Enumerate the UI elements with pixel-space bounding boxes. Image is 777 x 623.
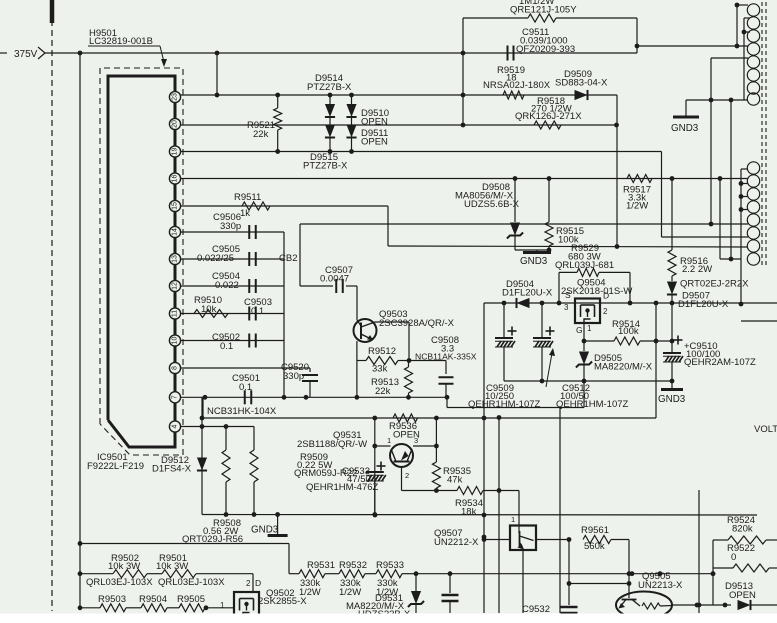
wire C9507 to base <box>346 286 357 320</box>
wire control bus <box>203 397 656 420</box>
svg-text:0.0047: 0.0047 <box>320 274 349 285</box>
wire aux out <box>741 320 777 322</box>
svg-text:4: 4 <box>172 424 179 428</box>
pin 7 of IC9501 <box>169 392 180 403</box>
diode D9511 (OPEN) <box>346 125 356 152</box>
ground GND3 (secondary) <box>520 250 551 267</box>
resistor R9508a <box>222 427 230 515</box>
svg-text:3: 3 <box>564 303 569 312</box>
resistor R9510 <box>194 295 228 318</box>
svg-text:1: 1 <box>587 324 592 333</box>
svg-text:2SC3928A/QR/-X: 2SC3928A/QR/-X <box>379 318 455 329</box>
svg-text:R9512: R9512 <box>368 346 396 357</box>
svg-text:QEHR1HM-107Z: QEHR1HM-107Z <box>556 399 629 410</box>
svg-text:QEHR1HM-107Z: QEHR1HM-107Z <box>468 399 541 410</box>
wire Q9504 gate <box>582 323 587 343</box>
svg-text:R9532: R9532 <box>339 560 367 571</box>
resistor R9522 <box>713 543 777 572</box>
wire pin15 net <box>181 206 748 249</box>
ground GND3 (output) <box>658 381 686 405</box>
wire Q9503 collector <box>375 322 409 361</box>
wire return to pin7 net <box>583 381 585 408</box>
svg-text:R9505: R9505 <box>177 594 205 605</box>
wire emitter join <box>402 490 437 492</box>
diode D9511 label <box>361 128 388 148</box>
wire Q9507 base <box>482 537 510 542</box>
svg-text:CB2: CB2 <box>279 253 297 264</box>
wire pin8 net <box>181 368 310 372</box>
wire R9561 drop <box>627 540 632 599</box>
resistor R9504 <box>126 594 167 612</box>
capacitor C9510 <box>663 303 683 381</box>
wire Q9505 base feed <box>569 583 629 585</box>
svg-text:QEHR2AM-107Z: QEHR2AM-107Z <box>684 357 756 368</box>
node 375V label <box>0 47 45 60</box>
resistor R9516 <box>668 179 749 290</box>
wire pin19 net <box>181 149 748 237</box>
svg-text:UN2213-X: UN2213-X <box>638 580 683 591</box>
svg-text:1/2W: 1/2W <box>299 587 321 597</box>
wire left drop to bottom rows <box>78 53 83 608</box>
svg-text:33k: 33k <box>372 364 388 375</box>
wire 375V to pin23 net <box>216 53 218 95</box>
diode D9515 label <box>303 152 348 172</box>
svg-text:1/2W: 1/2W <box>339 587 361 598</box>
svg-text:QRK126J-271X: QRK126J-271X <box>515 111 582 122</box>
transistor Q9505 labels <box>638 571 683 591</box>
resistor R9531 value <box>299 578 321 597</box>
transistor Q9507 labels <box>434 515 515 548</box>
diode D9510 label <box>361 108 389 128</box>
capacitor C9532 <box>522 604 578 615</box>
transistor Q9504 <box>561 278 632 336</box>
capacitor C9520 <box>281 362 318 382</box>
svg-text:QEHR1HM-476Z: QEHR1HM-476Z <box>306 482 379 493</box>
svg-text:NCB31HK-104X: NCB31HK-104X <box>207 406 277 417</box>
wire pin14 net <box>181 231 284 233</box>
diode D9510 (OPEN) <box>346 95 356 125</box>
svg-text:16: 16 <box>172 175 179 183</box>
capacitor C9504 <box>212 271 256 293</box>
wire start row 3 <box>78 605 100 610</box>
svg-text:0.1: 0.1 <box>251 306 264 317</box>
svg-text:7: 7 <box>172 395 179 399</box>
svg-text:MA8220/M/-X: MA8220/M/-X <box>594 362 653 373</box>
text VOLT <box>754 424 777 435</box>
capacitor C9502 <box>212 332 256 352</box>
wire C9520 bottom <box>309 381 311 397</box>
svg-text:QRL03EJ-103X: QRL03EJ-103X <box>86 577 153 588</box>
wire pin7 net <box>181 395 584 408</box>
pin 19 of IC9501 <box>169 146 180 157</box>
svg-text:QFZ0209-393: QFZ0209-393 <box>516 44 575 55</box>
wire pin10 net <box>181 340 284 342</box>
wire Q9531 collector rail <box>434 418 439 493</box>
svg-text:UN2212-X: UN2212-X <box>434 537 479 548</box>
svg-text:560k: 560k <box>584 541 605 552</box>
capacitor C9509 label <box>468 383 541 410</box>
wire GND3 to winding <box>686 98 748 103</box>
svg-text:15: 15 <box>172 202 179 210</box>
resistor R9508b <box>250 427 258 515</box>
wire pin12 net <box>181 285 284 287</box>
diode D9514 label <box>307 73 352 93</box>
resistor R9536 (OPEN) <box>389 414 420 441</box>
svg-text:10k: 10k <box>201 304 217 315</box>
svg-text:QRL039J-681: QRL039J-681 <box>555 260 614 271</box>
wire 375V bus <box>45 51 637 56</box>
svg-text:13: 13 <box>172 255 179 263</box>
svg-text:R9511: R9511 <box>234 192 261 203</box>
svg-text:R9504: R9504 <box>139 594 167 605</box>
wire 330k row <box>289 573 299 575</box>
svg-text:D1FL20U-X: D1FL20U-X <box>502 288 553 299</box>
resistor R9505 <box>167 594 234 612</box>
svg-text:2SK2855-X: 2SK2855-X <box>258 596 307 607</box>
capacitor C9505 <box>197 244 297 266</box>
wire pin20 net drop <box>616 125 618 246</box>
svg-text:18k: 18k <box>461 507 477 518</box>
svg-text:GND3: GND3 <box>671 123 699 134</box>
wire to C9508 <box>409 360 446 362</box>
wire Q9507 collector out <box>536 537 571 542</box>
capacitor C9509 <box>495 303 517 381</box>
svg-text:11: 11 <box>172 310 179 317</box>
svg-text:NCB11AK-335X: NCB11AK-335X <box>415 352 477 362</box>
svg-text:QRE121J-105Y: QRE121J-105Y <box>510 5 577 16</box>
pin 10 of IC9501 <box>169 335 180 346</box>
svg-text:375V: 375V <box>14 49 38 60</box>
wire to transformer top <box>637 44 748 49</box>
svg-text:330p: 330p <box>283 371 304 382</box>
wire D9509 to pin20 net <box>616 95 618 125</box>
diode D9513 label <box>725 581 756 601</box>
diode D9531 (zener) <box>408 574 424 613</box>
IC IC9501 ref label <box>87 452 144 472</box>
resistor R9509 label <box>294 452 357 479</box>
diode D9505 (zener) <box>576 341 653 381</box>
wire feedback run <box>300 222 748 227</box>
resistor R9533 <box>365 560 416 598</box>
svg-text:LC32819-001B: LC32819-001B <box>89 36 153 47</box>
resistor R9529 <box>555 243 630 303</box>
pin 20 of IC9501 <box>169 118 180 129</box>
svg-text:QRL03EJ-103X: QRL03EJ-103X <box>158 577 225 588</box>
transistor Q9531 labels <box>297 430 418 480</box>
capacitor C9503 <box>244 297 272 321</box>
resistor R9535 <box>432 462 471 491</box>
border mask <box>0 614 777 623</box>
resistor R9515 <box>545 179 584 251</box>
capacitor C9510 label <box>684 341 756 368</box>
capacitor C9507 <box>320 265 353 293</box>
part labels QRL03EJ <box>86 577 225 588</box>
diode D9508 label <box>455 182 520 210</box>
wire pin11 net <box>181 313 284 315</box>
svg-text:NRSA02J-180X: NRSA02J-180X <box>483 80 551 91</box>
wire feedback drop <box>300 224 333 286</box>
svg-text:G: G <box>576 325 583 335</box>
wire cap return bus <box>504 379 674 384</box>
wire Q9503 emitter <box>356 341 358 397</box>
wire output bus <box>484 301 777 306</box>
svg-text:R9503: R9503 <box>98 594 126 605</box>
svg-text:22k: 22k <box>375 386 391 397</box>
svg-text:100k: 100k <box>618 326 639 337</box>
wire pin7-pin4 tie <box>200 397 205 514</box>
wire C9532 rail <box>567 540 572 606</box>
wire Q9531 base rail <box>372 418 377 517</box>
diode D9512 <box>197 458 207 471</box>
resistor R9514 <box>584 319 674 345</box>
wire pin13 net <box>181 258 284 260</box>
wire pin16 ext down <box>718 176 741 261</box>
svg-text:OPEN: OPEN <box>361 117 388 128</box>
transistor Q9503 label <box>379 309 455 329</box>
svg-text:23: 23 <box>172 93 179 101</box>
svg-text:UDZS5.6B-X: UDZS5.6B-X <box>464 199 520 210</box>
svg-text:12: 12 <box>172 282 179 290</box>
connector H9501 label <box>88 28 167 67</box>
resistor R9503 <box>98 594 126 612</box>
wire tap B group <box>739 169 748 306</box>
capacitor C9501 <box>232 373 260 404</box>
resistor R9520 <box>463 0 637 22</box>
svg-text:OPEN: OPEN <box>729 590 756 601</box>
svg-text:D1FS4-X: D1FS4-X <box>152 464 192 475</box>
pin 12 of IC9501 <box>169 280 180 291</box>
wire start row 1 <box>80 544 289 574</box>
wire R9508 return <box>202 512 757 517</box>
part number NCB31HK-104X <box>207 406 277 417</box>
svg-text:330p: 330p <box>220 221 241 232</box>
wire pin20 net <box>181 123 619 128</box>
capacitor C9533 <box>366 462 386 517</box>
transistor Q9505 <box>616 592 672 619</box>
svg-text:1k: 1k <box>240 208 250 219</box>
transformer core <box>762 2 766 266</box>
wire sense drop <box>497 415 502 613</box>
capacitor C9533 label <box>306 466 379 493</box>
resistor R9512 <box>357 346 412 375</box>
wire winding tap A2 <box>742 18 750 100</box>
resistor R9508 label <box>182 518 243 545</box>
capacitor C9530 <box>442 574 459 613</box>
wire winding screen drop <box>730 100 732 259</box>
resistor R9518 <box>515 96 582 129</box>
diode D9504 <box>502 279 553 308</box>
capacitor C9508 <box>415 335 477 397</box>
wire pin4 net <box>181 424 254 429</box>
resistor R9502 <box>108 553 162 578</box>
diode D9513 (OPEN) <box>738 600 777 610</box>
wire snubber vertical <box>462 18 464 125</box>
wire control bus right <box>655 417 657 419</box>
svg-text:14: 14 <box>172 228 179 236</box>
resistor R9534 <box>436 487 519 526</box>
transistor Q9503 <box>354 319 377 342</box>
svg-text:GND3: GND3 <box>658 394 686 405</box>
transistor Q9502 <box>220 578 307 617</box>
wire R9514 to bus <box>655 303 657 418</box>
wire pin16 net <box>181 176 748 181</box>
pin 16 of IC9501 <box>169 173 180 184</box>
svg-text:D: D <box>255 578 261 588</box>
svg-text:OPEN: OPEN <box>361 137 388 148</box>
svg-text:2SB1188/QR/-W: 2SB1188/QR/-W <box>297 439 367 450</box>
capacitor C9512 <box>533 303 555 381</box>
resistor R9531 <box>299 560 335 578</box>
svg-text:PTZ27B-X: PTZ27B-X <box>307 82 352 93</box>
pin 13 of IC9501 <box>169 253 180 264</box>
capacitor C9512 label <box>546 348 629 410</box>
svg-text:47k: 47k <box>447 475 463 486</box>
svg-text:2: 2 <box>246 579 251 588</box>
diode D9507 <box>667 276 729 310</box>
svg-text:S: S <box>565 290 571 300</box>
wire VZ rail <box>697 490 702 613</box>
diode D9531 label <box>346 593 411 620</box>
wire start row 2 <box>80 573 113 575</box>
wire output bus drop <box>482 303 487 613</box>
resistor R9513 <box>371 361 413 398</box>
capacitor C9506 <box>213 212 256 239</box>
node 375V input rail (dashed) <box>51 0 53 611</box>
IC IC9501 dashed outline <box>100 68 183 455</box>
resistor R9521 <box>247 95 282 152</box>
resistor R9517 <box>623 175 652 212</box>
svg-text:QRT02EJ-2R2X: QRT02EJ-2R2X <box>680 279 749 290</box>
pin 4 of IC9501 <box>169 421 180 432</box>
svg-text:3: 3 <box>414 436 418 445</box>
wire winding tap A1 <box>735 3 748 8</box>
wire Q9502 drain <box>252 574 254 592</box>
wire feedback tap <box>709 58 748 224</box>
svg-text:10: 10 <box>172 337 179 345</box>
wire row to caps <box>414 571 716 576</box>
wire Q9507 emitter <box>522 550 524 613</box>
capacitor C9511 <box>508 27 576 61</box>
svg-text:PTZ27B-X: PTZ27B-X <box>303 161 348 172</box>
svg-text:2.2 2W: 2.2 2W <box>682 264 712 275</box>
diode D9514 <box>325 95 335 152</box>
resistor R9519 <box>483 65 551 99</box>
wire pin23 net <box>181 93 617 98</box>
resistor R9561 <box>581 525 629 552</box>
svg-text:0.1: 0.1 <box>220 341 233 352</box>
wire adj rail <box>711 540 716 605</box>
svg-text:0.1: 0.1 <box>239 382 252 393</box>
svg-text:GND3: GND3 <box>251 525 279 536</box>
pin 11 of IC9501 <box>169 308 180 319</box>
svg-text:GND3: GND3 <box>520 256 548 267</box>
svg-text:0: 0 <box>731 552 736 563</box>
svg-text:1/2W: 1/2W <box>626 201 648 212</box>
svg-text:R9561: R9561 <box>581 525 609 536</box>
wire cap bus vertical <box>282 232 287 400</box>
svg-text:2SK2018-01S-W: 2SK2018-01S-W <box>561 286 632 297</box>
svg-text:C9532: C9532 <box>522 604 550 615</box>
pin 23 of IC9501 <box>169 91 180 102</box>
svg-text:1: 1 <box>387 436 391 445</box>
resistor R9511 <box>234 192 270 219</box>
svg-text:SD883-04-X: SD883-04-X <box>555 78 608 89</box>
svg-text:22k: 22k <box>253 129 269 140</box>
pin 14 of IC9501 <box>169 226 180 237</box>
svg-text:1: 1 <box>220 601 225 610</box>
svg-text:10k 3W: 10k 3W <box>108 561 140 572</box>
ground GND3 (R9508) <box>251 515 288 536</box>
svg-text:19: 19 <box>172 148 179 156</box>
svg-text:2: 2 <box>405 471 409 480</box>
ground GND3 (top) <box>671 100 699 134</box>
diode D9508 (zener) <box>507 179 551 253</box>
resistor R9501 <box>156 553 253 578</box>
transistor Q9531 <box>375 444 437 491</box>
svg-text:820k: 820k <box>732 524 753 535</box>
svg-text:8: 8 <box>172 366 179 370</box>
resistor R9524 <box>713 515 777 544</box>
wire Q9505 output <box>672 603 731 608</box>
transistor Q9507 <box>510 526 536 551</box>
svg-text:R9531: R9531 <box>307 560 335 571</box>
svg-text:D: D <box>603 291 609 301</box>
svg-text:20: 20 <box>172 120 179 128</box>
svg-text:10k 3W: 10k 3W <box>156 561 188 572</box>
diode D9512 label <box>152 455 192 475</box>
resistor R9532 <box>325 560 367 598</box>
node 375V heavy stub <box>50 0 55 23</box>
wire primary feed vertical <box>736 5 738 46</box>
svg-text:VOLT: VOLT <box>754 424 777 435</box>
svg-text:2: 2 <box>603 307 608 316</box>
svg-text:D1FL20U-X: D1FL20U-X <box>678 299 729 310</box>
svg-text:R9533: R9533 <box>376 560 404 571</box>
wire aux drop <box>559 408 561 614</box>
IC IC9501 body <box>108 76 175 447</box>
svg-text:0.022: 0.022 <box>215 280 239 291</box>
diode D9509 <box>555 69 608 100</box>
pin 15 of IC9501 <box>169 200 180 211</box>
transformer T9501 windings <box>747 4 759 265</box>
svg-text:F9222L-F219: F9222L-F219 <box>87 461 144 472</box>
svg-text:0.022/25: 0.022/25 <box>197 253 234 264</box>
pin 8 of IC9501 <box>169 362 180 373</box>
svg-text:1: 1 <box>511 515 515 524</box>
wire snubber right vertical <box>635 18 640 53</box>
